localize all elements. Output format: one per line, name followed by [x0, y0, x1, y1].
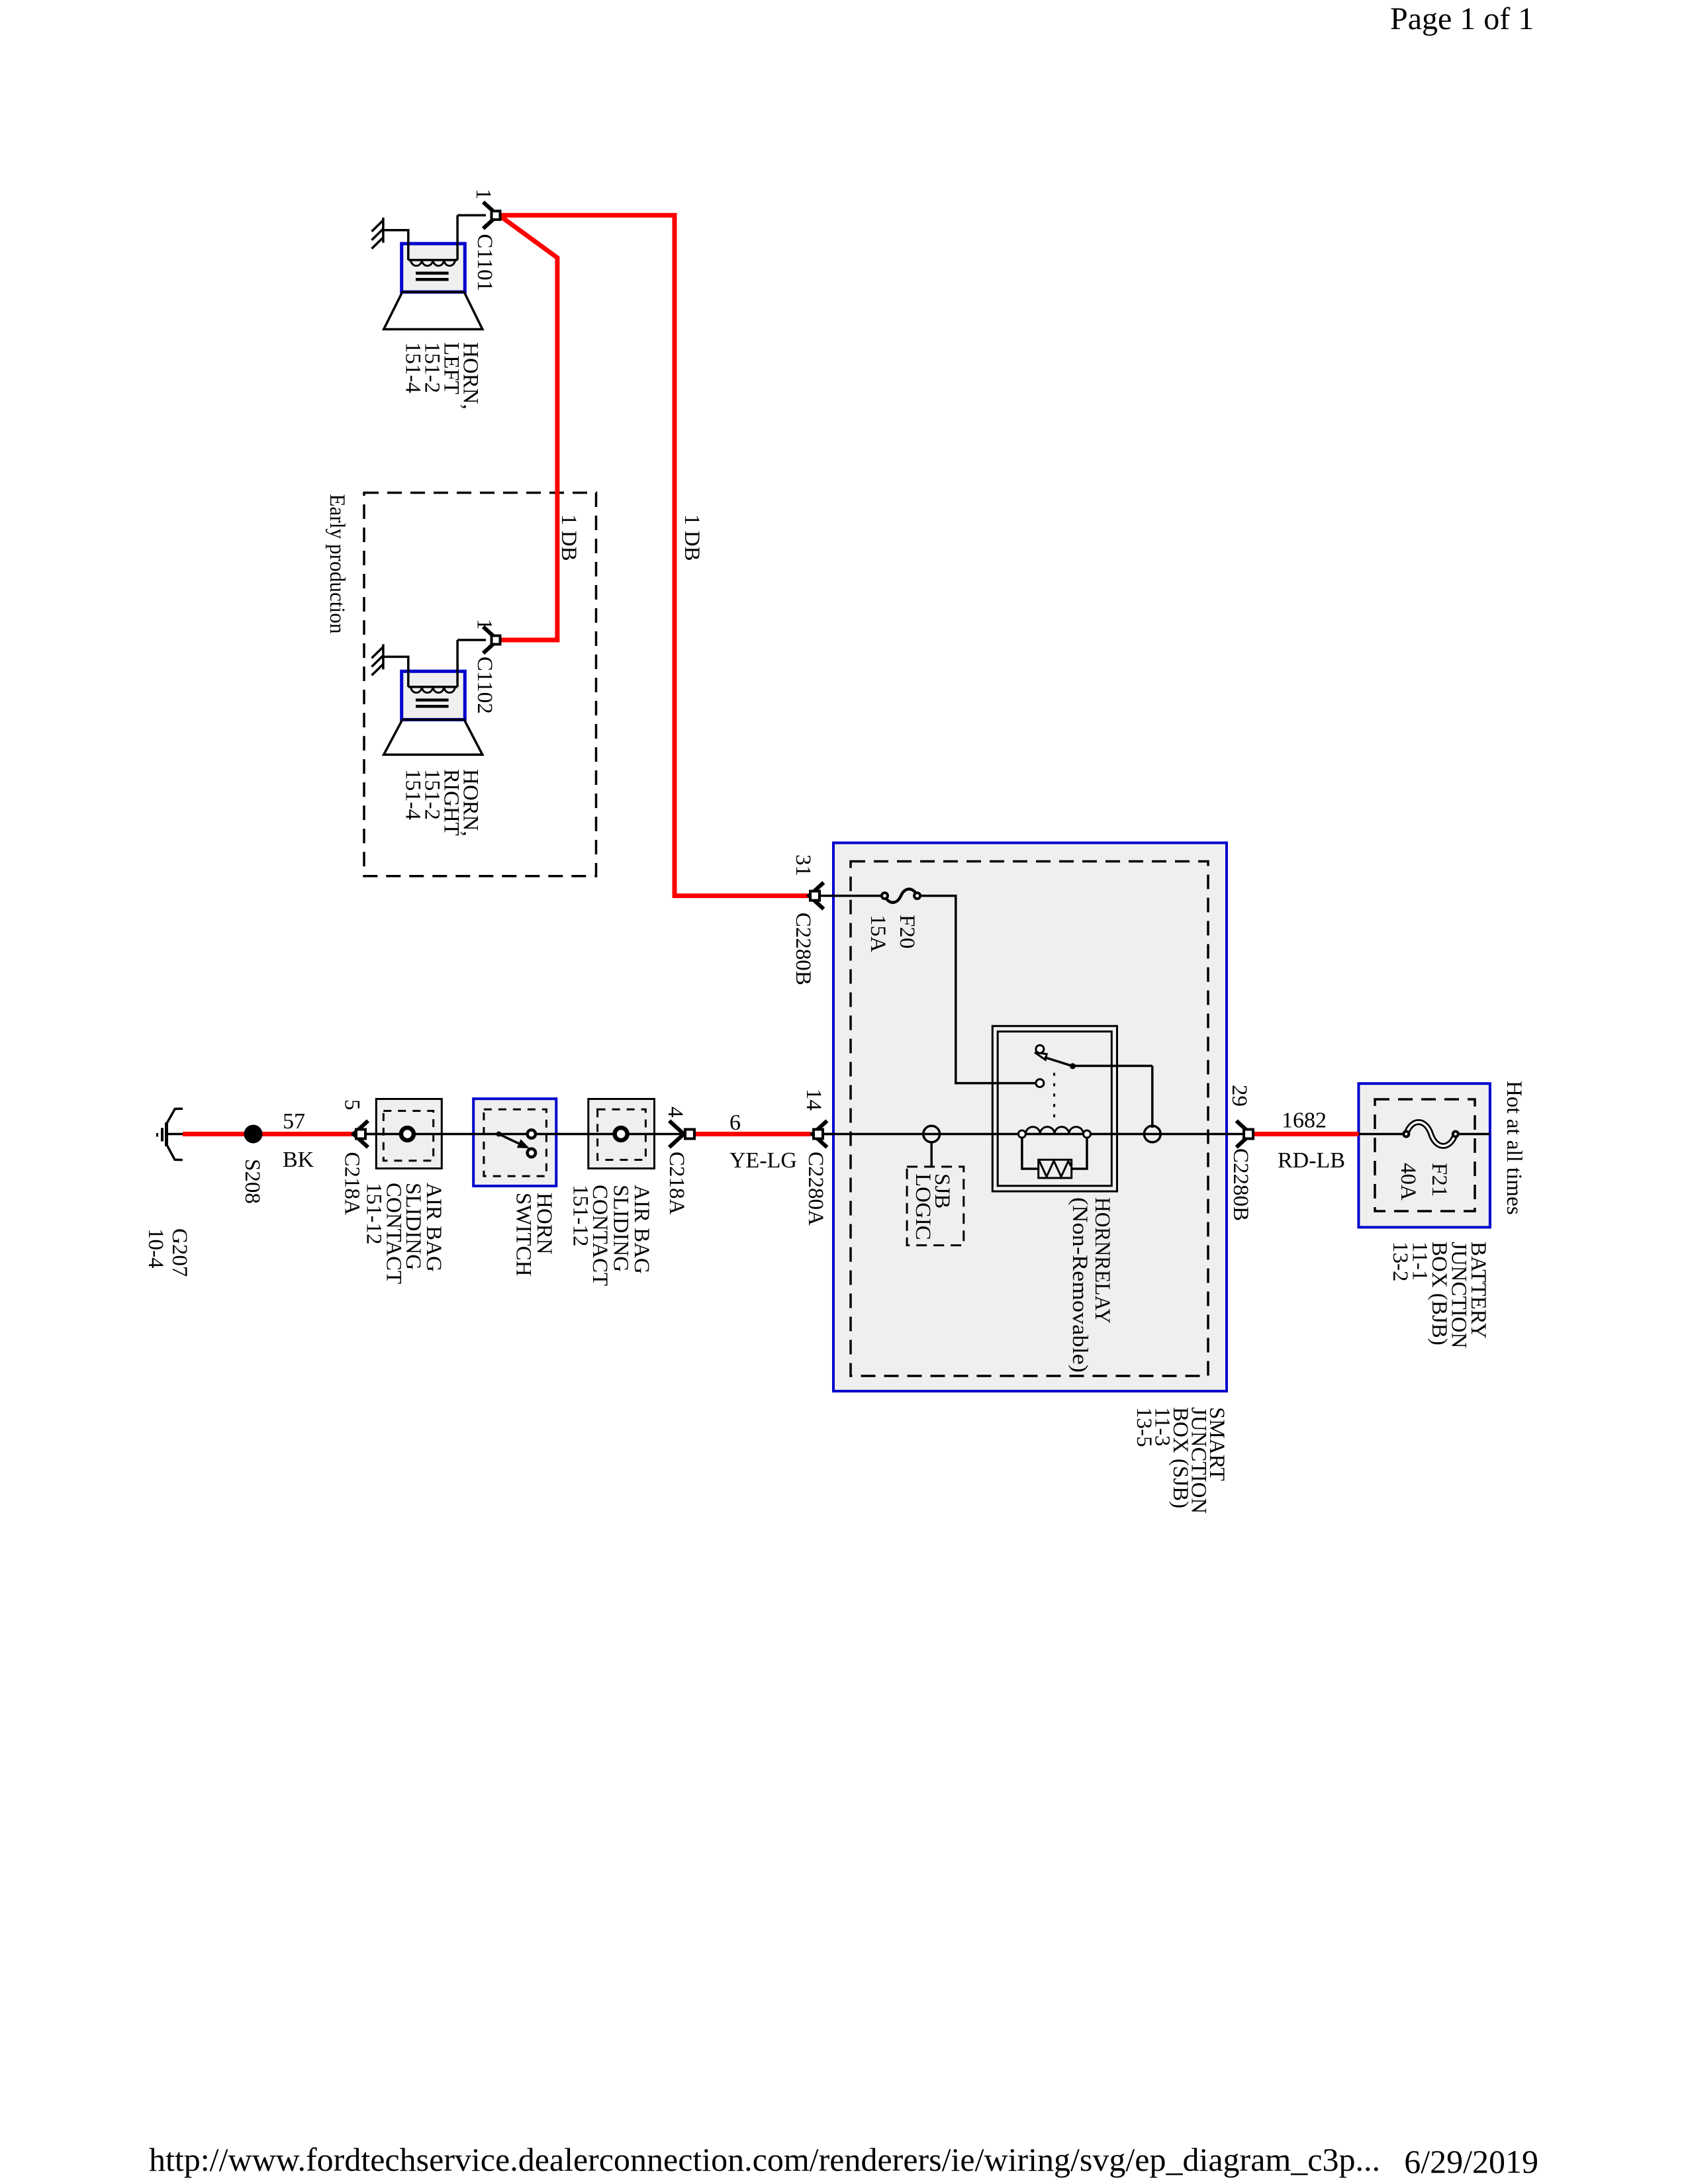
svg-text:15A: 15A [866, 915, 890, 952]
svg-text:(Non-Removable): (Non-Removable) [1068, 1197, 1092, 1373]
svg-text:1: 1 [473, 619, 496, 630]
svg-text:AIR BAG: AIR BAG [630, 1185, 653, 1274]
svg-text:1: 1 [471, 189, 495, 200]
svg-text:LOGIC: LOGIC [911, 1173, 935, 1240]
svg-text:F21: F21 [1427, 1163, 1451, 1197]
svg-text:14: 14 [802, 1089, 825, 1111]
svg-text:C218A: C218A [340, 1152, 363, 1216]
svg-text:13-5: 13-5 [1132, 1407, 1156, 1447]
svg-text:Page 1 of 1: Page 1 of 1 [1390, 1, 1534, 36]
svg-text:F20: F20 [895, 915, 919, 948]
svg-text:57: 57 [283, 1109, 305, 1134]
svg-text:13-2: 13-2 [1388, 1242, 1412, 1282]
svg-text:BK: BK [283, 1148, 314, 1172]
svg-text:6/29/2019: 6/29/2019 [1404, 2143, 1538, 2180]
svg-text:Hot at all times: Hot at all times [1502, 1081, 1526, 1215]
svg-text:4: 4 [663, 1107, 687, 1118]
svg-text:http://www.fordtechservice.dea: http://www.fordtechservice.dealerconnect… [149, 2141, 1380, 2178]
svg-text:5: 5 [340, 1099, 363, 1111]
svg-text:C2280A: C2280A [804, 1152, 827, 1226]
svg-text:S208: S208 [240, 1159, 264, 1204]
svg-text:151-4: 151-4 [401, 342, 425, 393]
svg-text:C218A: C218A [665, 1152, 688, 1215]
svg-text:10-4: 10-4 [144, 1228, 167, 1269]
svg-text:29: 29 [1227, 1085, 1251, 1107]
svg-text:C2280B: C2280B [791, 913, 815, 985]
svg-text:C2280B: C2280B [1229, 1148, 1252, 1221]
svg-text:G207: G207 [167, 1228, 191, 1277]
svg-text:1 DB: 1 DB [680, 514, 704, 561]
svg-text:C1101: C1101 [473, 234, 496, 291]
svg-text:151-4: 151-4 [401, 769, 425, 820]
svg-text:31: 31 [791, 854, 815, 876]
svg-text:HORNRELAY: HORNRELAY [1090, 1197, 1114, 1324]
svg-text:RD-LB: RD-LB [1278, 1148, 1345, 1173]
svg-text:6: 6 [729, 1111, 741, 1135]
svg-text:1682: 1682 [1282, 1109, 1327, 1133]
svg-text:Early production: Early production [325, 494, 349, 634]
svg-text:40A: 40A [1396, 1163, 1420, 1201]
svg-text:1 DB: 1 DB [557, 514, 581, 561]
svg-text:SWITCH: SWITCH [512, 1193, 536, 1277]
svg-text:YE-LG: YE-LG [729, 1148, 797, 1173]
svg-text:151-12: 151-12 [362, 1183, 386, 1245]
svg-text:151-12: 151-12 [568, 1185, 592, 1247]
svg-text:C1102: C1102 [473, 657, 496, 714]
